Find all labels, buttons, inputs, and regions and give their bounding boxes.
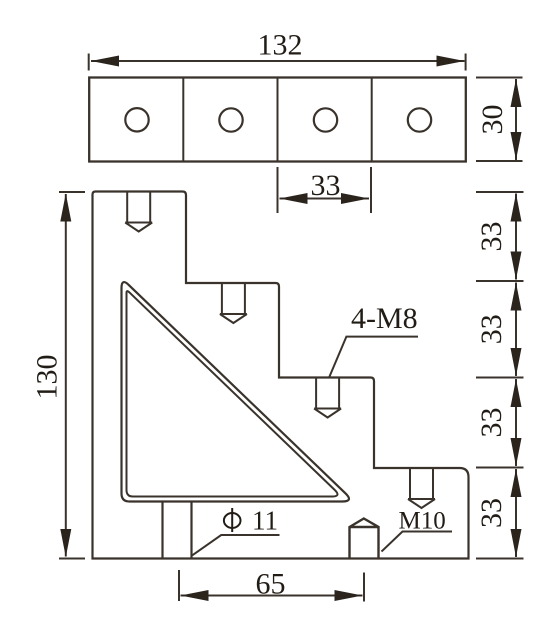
tapped hole M8 #2 bbox=[220, 283, 247, 323]
dimension 130: extension ticks bbox=[59, 192, 85, 559]
dimension 33 right #2: arrowheads bbox=[511, 283, 522, 311]
dimension 33 top: arrowheads bbox=[280, 193, 308, 204]
svg-text:M10: M10 bbox=[399, 508, 446, 535]
top view: bar outline bbox=[89, 78, 466, 162]
triangular cutout outer outline bbox=[122, 282, 349, 501]
dimension 33 right #4: line bbox=[515, 469, 517, 557]
dimension 30: line bbox=[515, 79, 517, 160]
dimension 33 right #4: arrowheads bbox=[511, 469, 522, 497]
top view: segment divider 2 bbox=[277, 78, 279, 162]
dimension 130: arrowheads bbox=[60, 194, 71, 222]
dimension 33 top: line bbox=[280, 198, 370, 200]
svg-text:65: 65 bbox=[256, 568, 286, 601]
svg-text:4-M8: 4-M8 bbox=[351, 302, 418, 335]
dimension 30: arrowheads bbox=[511, 79, 522, 107]
svg-text:33: 33 bbox=[475, 222, 508, 252]
svg-text:33: 33 bbox=[475, 314, 508, 344]
top view: segment divider 1 bbox=[182, 78, 184, 162]
label phi symbol bbox=[224, 513, 241, 528]
dimension 33 right #1: arrowheads bbox=[511, 194, 522, 222]
hole phi11: left line bbox=[161, 503, 163, 559]
svg-text:33: 33 bbox=[475, 408, 508, 438]
svg-text:11: 11 bbox=[252, 506, 278, 536]
svg-text:30: 30 bbox=[476, 105, 509, 135]
hole circle 2 bbox=[219, 108, 242, 131]
front view: stepped part outline bbox=[93, 192, 469, 559]
leader phi11 bbox=[192, 535, 279, 555]
tapped hole M8 #3 bbox=[314, 378, 341, 418]
hole circle 3 bbox=[314, 108, 337, 131]
triangular cutout inner outline bbox=[127, 291, 338, 496]
svg-text:33: 33 bbox=[311, 169, 341, 202]
dimension 30: extension ticks bbox=[476, 78, 523, 162]
dimension 65: arrowheads bbox=[181, 590, 209, 601]
leader M10 bbox=[382, 532, 453, 552]
top view: segment divider 3 bbox=[371, 78, 373, 162]
hole phi11: right line bbox=[190, 503, 192, 559]
stud M10 bbox=[350, 519, 379, 559]
dimension 33 right #3: line bbox=[515, 379, 517, 466]
right dimension ticks bbox=[476, 192, 524, 559]
dimension 132: extension ticks bbox=[89, 54, 466, 71]
dimension 65: line bbox=[181, 595, 363, 597]
dimension 33 right #1: line bbox=[515, 194, 517, 280]
dimension 130: line bbox=[65, 194, 67, 557]
tapped hole M8 #1 bbox=[125, 192, 152, 232]
svg-text:132: 132 bbox=[258, 29, 303, 62]
dimension 33 right #3: arrowheads bbox=[511, 379, 522, 407]
dimension 33 top: extension ticks bbox=[278, 167, 372, 213]
svg-text:33: 33 bbox=[475, 498, 508, 528]
dimension 132: line bbox=[91, 60, 465, 62]
leader 4-M8 bbox=[329, 337, 418, 377]
dimension 65: extension ticks bbox=[179, 570, 364, 602]
tapped hole M8 #4 bbox=[408, 468, 435, 508]
hole circle 4 bbox=[408, 108, 431, 131]
svg-text:130: 130 bbox=[31, 355, 64, 400]
dimension 33 right #2: line bbox=[515, 283, 517, 377]
dimension 132: arrowheads bbox=[91, 56, 119, 67]
hole circle 1 bbox=[125, 108, 148, 131]
